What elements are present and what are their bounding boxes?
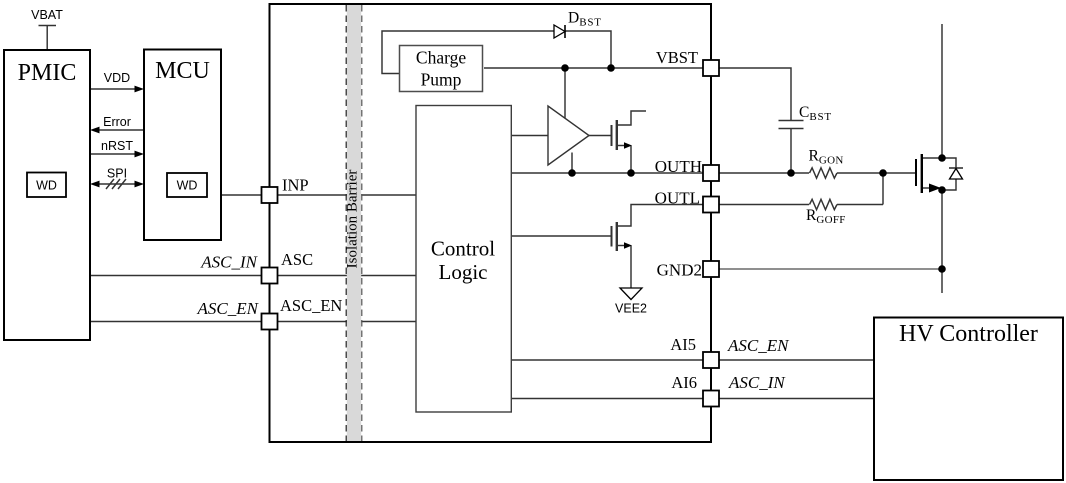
svg-text:nRST: nRST [101,139,133,153]
svg-text:Logic: Logic [439,260,488,284]
svg-text:VBST: VBST [656,48,698,67]
svg-text:ASC_EN: ASC_EN [727,336,790,355]
svg-text:OUTL: OUTL [655,189,700,208]
svg-text:Error: Error [103,115,131,129]
svg-text:CBST: CBST [799,104,832,123]
svg-text:PMIC: PMIC [18,60,77,86]
svg-text:GND2: GND2 [657,261,702,280]
svg-text:ASC_IN: ASC_IN [728,373,786,392]
svg-text:WD: WD [36,179,57,193]
svg-text:VBAT: VBAT [31,8,63,22]
svg-text:RGON: RGON [809,148,844,167]
svg-text:ASC_EN: ASC_EN [280,296,342,315]
svg-text:AI5: AI5 [670,335,696,354]
svg-text:AI6: AI6 [671,373,697,392]
svg-text:HV Controller: HV Controller [899,321,1038,347]
svg-text:VDD: VDD [104,71,130,85]
svg-text:Charge: Charge [416,48,466,68]
svg-text:Isolation Barrier: Isolation Barrier [344,170,360,269]
svg-text:Control: Control [431,237,495,261]
svg-text:SPI: SPI [107,167,127,181]
svg-text:ASC: ASC [281,250,313,269]
svg-text:WD: WD [177,179,198,193]
svg-text:DBST: DBST [568,10,602,29]
svg-text:ASC_EN: ASC_EN [197,299,260,318]
svg-text:VEE2: VEE2 [615,302,647,316]
svg-text:Pump: Pump [421,70,462,90]
svg-text:ASC_IN: ASC_IN [200,253,258,272]
svg-text:INP: INP [282,176,309,195]
svg-text:OUTH: OUTH [655,157,702,176]
svg-text:MCU: MCU [155,58,210,84]
